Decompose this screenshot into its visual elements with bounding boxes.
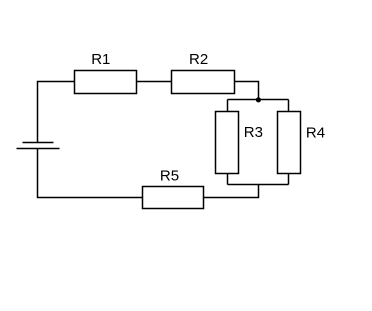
wire R5 left to battery- (38, 149, 144, 198)
svg-text:R3: R3 (244, 124, 263, 141)
node junction dot (256, 97, 261, 102)
resistor R2 (172, 71, 235, 94)
wire R4 bottom lead (288, 173, 290, 185)
wire R2 right then down to node (235, 82, 259, 100)
wire bottom rail down and left to R5 (203, 185, 259, 198)
svg-text:R5: R5 (160, 167, 179, 184)
wire bottom rail of parallel section (228, 184, 289, 186)
resistor R4 (278, 112, 301, 174)
battery (short top plate, long bottom plate) (17, 143, 60, 149)
wire R4 top lead (288, 100, 290, 113)
resistor R1 (75, 71, 137, 94)
resistor R5 (143, 187, 204, 209)
wire top rail of parallel section (228, 99, 289, 101)
wire R3 bottom lead (227, 173, 229, 185)
svg-text:R2: R2 (189, 51, 208, 68)
svg-text:R1: R1 (91, 51, 110, 68)
resistor R3 (216, 112, 239, 174)
wire R1 to R2 (136, 81, 172, 83)
svg-text:R4: R4 (306, 125, 325, 142)
wire R3 top lead (227, 100, 229, 113)
wire battery+ up left side and across to R1 (38, 82, 76, 143)
